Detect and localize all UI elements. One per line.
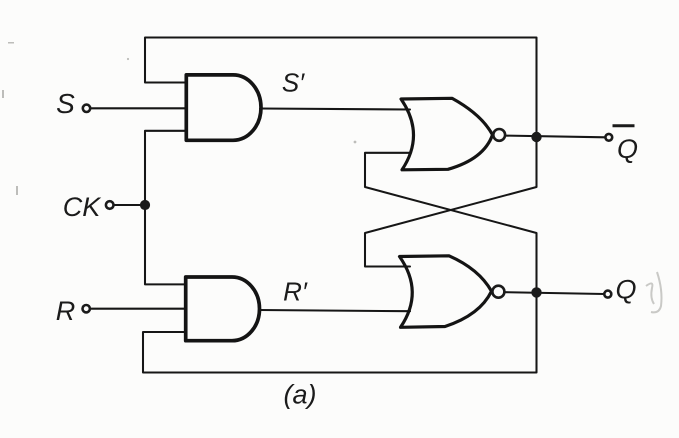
svg-text:Q: Q bbox=[615, 275, 636, 305]
svg-text:Q: Q bbox=[617, 134, 638, 164]
svg-text:R: R bbox=[56, 296, 76, 326]
svg-text:S′: S′ bbox=[282, 68, 305, 98]
svg-text:S: S bbox=[56, 88, 75, 119]
svg-text:(a): (a) bbox=[284, 380, 317, 410]
svg-text:CK: CK bbox=[63, 192, 101, 222]
svg-text:R′: R′ bbox=[283, 277, 308, 307]
